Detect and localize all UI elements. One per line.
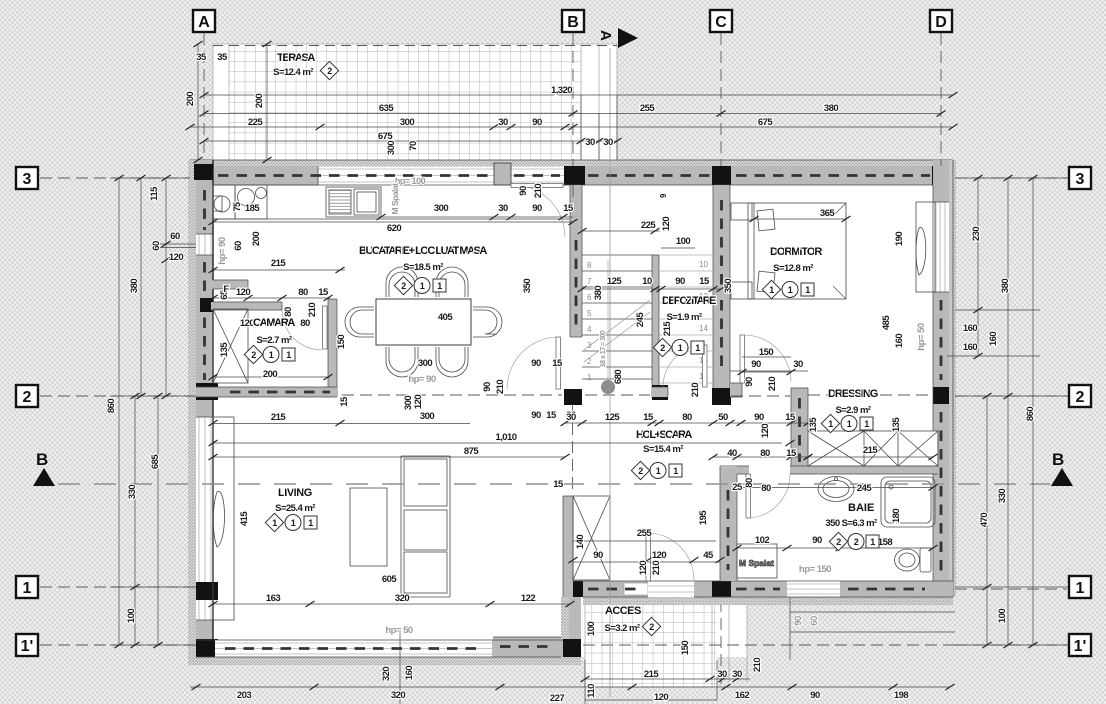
svg-text:30: 30 [498, 203, 508, 214]
svg-text:S=1.9 m²: S=1.9 m² [667, 312, 702, 323]
svg-text:210: 210 [495, 380, 506, 394]
svg-text:110: 110 [586, 684, 597, 698]
svg-text:90: 90 [532, 203, 542, 214]
svg-text:860: 860 [106, 399, 117, 413]
section marker B left [33, 450, 55, 486]
svg-text:300: 300 [420, 411, 434, 422]
svg-text:380: 380 [129, 279, 140, 293]
depozitare door arc [652, 345, 707, 397]
svg-text:245: 245 [857, 483, 872, 494]
svg-text:102: 102 [755, 535, 769, 546]
svg-text:1: 1 [587, 373, 592, 382]
svg-text:100: 100 [586, 622, 597, 636]
svg-text:2: 2 [638, 466, 643, 476]
dorm rows [742, 219, 846, 372]
svg-text:160: 160 [963, 342, 977, 353]
living bottom wall y640 [196, 640, 563, 657]
bottom dim row main [190, 686, 950, 688]
svg-text:635: 635 [379, 103, 394, 114]
kitchen symbols [394, 276, 446, 294]
svg-text:120: 120 [638, 561, 649, 575]
dressing wardrobe X [808, 431, 938, 466]
svg-text:1: 1 [870, 537, 875, 547]
svg-text:35: 35 [196, 52, 207, 63]
living tv unit [401, 456, 450, 597]
svg-text:90: 90 [744, 377, 755, 387]
camara closet X [213, 309, 248, 383]
svg-text:S=18.5 m²: S=18.5 m² [403, 262, 443, 273]
svg-text:200: 200 [254, 94, 265, 108]
grid A vertical [203, 33, 205, 160]
kitchen stove [326, 187, 381, 217]
column bottom C [712, 581, 731, 597]
svg-text:160: 160 [988, 332, 999, 346]
svg-text:380: 380 [824, 103, 838, 114]
pier living bottom [493, 637, 561, 656]
section marker B right [1051, 450, 1073, 486]
svg-text:227: 227 [550, 693, 564, 704]
svg-text:2: 2 [854, 537, 859, 547]
svg-text:B: B [36, 450, 48, 469]
column bottom step [569, 581, 583, 597]
right lower area [790, 597, 955, 660]
top dim row 1320 [204, 94, 953, 96]
svg-text:1: 1 [23, 580, 32, 597]
svg-text:150: 150 [759, 347, 773, 358]
svg-text:1: 1 [805, 285, 810, 295]
svg-text:30: 30 [566, 412, 576, 423]
svg-text:hp= 50: hp= 50 [916, 323, 927, 351]
svg-text:30: 30 [603, 137, 613, 148]
svg-text:120: 120 [654, 692, 668, 703]
camara right wall [328, 299, 337, 397]
svg-text:1: 1 [286, 350, 291, 360]
svg-text:120: 120 [413, 395, 424, 409]
svg-text:90: 90 [810, 690, 820, 701]
column C grid2 [712, 388, 731, 405]
svg-text:330: 330 [127, 485, 138, 499]
svg-text:150: 150 [336, 335, 347, 349]
terasa symbol diamond2 [320, 61, 338, 79]
svg-text:120: 120 [760, 424, 771, 438]
svg-text:215: 215 [271, 412, 286, 423]
top wall window band kitchen-terasa [318, 167, 495, 186]
marker 2 left [16, 385, 38, 407]
svg-text:S=12.4 m²: S=12.4 m² [273, 67, 313, 78]
camara 200 row [213, 376, 330, 378]
svg-text:470: 470 [979, 513, 990, 527]
svg-text:90: 90 [532, 117, 542, 128]
living bottom dashes [225, 647, 480, 650]
svg-text:3: 3 [23, 171, 32, 188]
svg-text:A: A [198, 14, 210, 31]
svg-text:25: 25 [732, 482, 743, 493]
camara F wall [211, 280, 248, 289]
marker B top [562, 10, 584, 32]
marker 1 left [16, 576, 38, 598]
svg-text:18 x 17 = 300: 18 x 17 = 300 [600, 330, 607, 367]
svg-text:1: 1 [291, 518, 296, 528]
svg-text:200: 200 [185, 92, 196, 106]
living bottom window band [215, 640, 492, 657]
svg-text:320: 320 [381, 667, 392, 681]
dressing west wall [791, 388, 808, 473]
svg-text:1': 1' [1074, 638, 1087, 655]
top wall insulation strip [190, 160, 953, 167]
svg-text:680: 680 [613, 370, 624, 384]
svg-text:15: 15 [339, 396, 350, 407]
svg-text:S=12.8 m²: S=12.8 m² [773, 263, 813, 274]
svg-text:200: 200 [251, 232, 262, 246]
right wall dorm window gap [933, 202, 949, 292]
svg-text:15: 15 [643, 412, 654, 423]
svg-text:860: 860 [1025, 407, 1036, 421]
wall hol/living lower + wardrobe support [563, 496, 573, 597]
svg-text:2: 2 [836, 537, 841, 547]
kitchen sink unit [235, 185, 267, 219]
svg-text:160: 160 [404, 666, 415, 680]
marker 1' right [1069, 634, 1091, 656]
marker A [193, 10, 215, 32]
svg-text:875: 875 [464, 446, 479, 457]
svg-text:30: 30 [498, 117, 508, 128]
hol wardrobe X [573, 496, 610, 580]
wall B vertical (kitchen/stairs) [570, 185, 582, 337]
svg-text:1: 1 [269, 350, 274, 360]
stair step numbers [587, 260, 708, 382]
svg-text:1': 1' [21, 638, 34, 655]
left wall kitchen window gap [196, 234, 213, 255]
svg-text:DORMITOR: DORMITOR [770, 246, 822, 258]
svg-text:300: 300 [400, 117, 414, 128]
svg-text:15: 15 [786, 448, 797, 459]
svg-text:100: 100 [676, 236, 690, 247]
svg-text:120: 120 [661, 217, 672, 231]
svg-text:2: 2 [660, 343, 665, 353]
svg-text:215: 215 [271, 258, 286, 269]
column left grid1 [196, 582, 218, 600]
svg-text:1: 1 [437, 281, 442, 291]
bottom wall window baie [787, 581, 840, 597]
svg-text:BUCATARIE+ LOC LUAT MASA: BUCATARIE+ LOC LUAT MASA [359, 245, 487, 257]
svg-text:30: 30 [585, 137, 595, 148]
svg-text:15: 15 [553, 479, 564, 490]
svg-text:675: 675 [378, 131, 393, 142]
svg-text:10: 10 [642, 276, 652, 287]
svg-text:2: 2 [1076, 389, 1085, 406]
column D top [932, 166, 953, 185]
right wall face lines [933, 160, 953, 597]
svg-text:162: 162 [735, 690, 749, 701]
svg-text:80: 80 [682, 412, 692, 423]
svg-text:135: 135 [219, 342, 230, 357]
svg-text:LIVING: LIVING [278, 487, 312, 499]
living coffee table [350, 488, 387, 566]
dining table [376, 299, 471, 345]
column left grid2 [196, 383, 218, 400]
svg-text:210: 210 [651, 561, 662, 575]
svg-text:90: 90 [593, 550, 603, 561]
svg-text:1: 1 [1076, 580, 1085, 597]
svg-text:380: 380 [593, 286, 604, 300]
svg-text:60: 60 [809, 616, 820, 626]
svg-text:5: 5 [587, 309, 592, 318]
top wall gray body [190, 167, 953, 186]
baie washing machine [737, 544, 777, 578]
svg-text:90: 90 [531, 358, 541, 369]
terasa depth verticals [198, 44, 267, 160]
left wall living window gap [196, 417, 213, 620]
svg-text:50: 50 [718, 412, 728, 423]
svg-text:415: 415 [239, 511, 250, 526]
svg-text:M Spalat: M Spalat [390, 183, 400, 215]
svg-text:DRESSING: DRESSING [828, 388, 878, 400]
dining chairs bottom [386, 347, 468, 377]
svg-text:2: 2 [401, 281, 406, 291]
svg-text:1: 1 [864, 419, 869, 429]
top wall dashes [218, 174, 560, 177]
top dim row 225/300/30/90/675 [190, 126, 953, 128]
svg-text:B: B [1052, 450, 1064, 469]
left dim verticals [119, 178, 166, 645]
svg-text:75: 75 [232, 202, 242, 211]
living window sash [213, 417, 234, 620]
svg-text:163: 163 [266, 593, 280, 604]
terasa tiles [229, 44, 581, 162]
svg-text:2: 2 [587, 357, 592, 366]
svg-text:CAMARA: CAMARA [253, 317, 295, 329]
svg-text:B: B [567, 14, 579, 31]
svg-text:60: 60 [170, 231, 180, 242]
svg-text:80: 80 [300, 318, 310, 329]
svg-text:203: 203 [237, 690, 251, 701]
svg-text:125: 125 [607, 276, 622, 287]
hol entry door opening [648, 581, 694, 597]
column left grid3 [194, 164, 213, 180]
svg-text:120: 120 [169, 252, 183, 263]
svg-text:15: 15 [699, 276, 710, 287]
svg-text:15: 15 [785, 412, 796, 423]
svg-text:3: 3 [1076, 171, 1085, 188]
section B-B line [58, 483, 1050, 485]
column stair bottom [652, 385, 668, 400]
terasa white slab [213, 44, 617, 162]
svg-text:10: 10 [699, 260, 708, 269]
svg-text:S=3.2 m²: S=3.2 m² [605, 623, 640, 634]
left wall inner edge [212, 160, 214, 657]
svg-text:70: 70 [408, 141, 419, 151]
baie rows [737, 488, 933, 549]
svg-text:115: 115 [149, 186, 160, 201]
grid 1' horizontal [40, 644, 1067, 646]
wall C vertical [713, 185, 730, 388]
svg-text:80: 80 [761, 483, 771, 494]
svg-text:122: 122 [521, 593, 535, 604]
bottom wall dashes [588, 588, 640, 591]
svg-text:300: 300 [386, 141, 397, 155]
left wall insulation [188, 160, 196, 657]
svg-text:DEPOZITARE: DEPOZITARE [662, 295, 716, 307]
right wall insulation [949, 160, 956, 597]
dimension ticks [115, 41, 1038, 690]
column left camara [200, 298, 213, 312]
svg-text:210: 210 [767, 377, 778, 391]
svg-text:210: 210 [307, 303, 318, 317]
top dim row 675 left [204, 140, 617, 142]
svg-text:215: 215 [644, 669, 659, 680]
svg-text:90: 90 [518, 186, 529, 196]
column B grid2 [564, 389, 582, 405]
svg-text:1: 1 [420, 281, 425, 291]
svg-text:7: 7 [587, 277, 592, 286]
svg-text:100: 100 [997, 609, 1008, 623]
insulation under living wall [188, 657, 581, 665]
svg-text:8: 8 [587, 261, 592, 270]
terasa edge lines [213, 44, 617, 162]
svg-text:15: 15 [318, 287, 329, 298]
stair up line + landing dot [601, 380, 615, 394]
svg-text:140: 140 [575, 535, 586, 549]
svg-text:185: 185 [245, 203, 260, 214]
kitchen door arc at B [511, 184, 565, 238]
svg-text:45: 45 [703, 550, 714, 561]
column A top [192, 166, 213, 185]
svg-text:4: 4 [587, 325, 592, 334]
baie shower [881, 477, 935, 527]
top dim row 635/255/380 [204, 113, 941, 115]
dorm window sash [916, 202, 935, 292]
svg-text:hp= 90: hp= 90 [408, 374, 436, 385]
svg-text:1: 1 [678, 343, 683, 353]
svg-text:1,320: 1,320 [551, 85, 572, 96]
svg-text:C: C [715, 14, 727, 31]
svg-text:1: 1 [673, 466, 678, 476]
svg-text:30: 30 [732, 669, 742, 680]
baie sink [818, 477, 854, 502]
right dim verticals [978, 178, 1033, 645]
svg-text:80: 80 [744, 478, 755, 488]
svg-text:350: 350 [522, 279, 533, 293]
stair middle wall [652, 255, 659, 397]
svg-text:30: 30 [717, 669, 727, 680]
bottom acces rows [585, 660, 750, 704]
svg-text:405: 405 [438, 312, 453, 323]
svg-text:hp= 90: hp= 90 [217, 237, 228, 265]
dining chairs top [386, 267, 468, 297]
grid 3 horizontal [40, 177, 1067, 179]
svg-text:1: 1 [847, 419, 852, 429]
kitchen 215 row [213, 270, 345, 298]
svg-text:675: 675 [758, 117, 773, 128]
kitchen counter line [213, 185, 570, 219]
door B wall lower (hol-living) opening [570, 336, 582, 338]
top wall window band near B [511, 167, 565, 186]
acces porch slab [569, 597, 747, 657]
svg-text:1: 1 [788, 285, 793, 295]
svg-text:90: 90 [754, 412, 764, 423]
svg-text:225: 225 [248, 117, 263, 128]
dorm bed [731, 203, 846, 299]
svg-text:685: 685 [150, 454, 161, 469]
svg-text:90: 90 [751, 359, 761, 370]
dorm south wall stub [730, 383, 742, 397]
baie west wall [720, 466, 737, 581]
section marker A top [597, 28, 638, 48]
svg-text:6: 6 [587, 293, 592, 302]
column right grid1 [932, 581, 953, 597]
column B top [564, 166, 585, 185]
svg-text:3: 3 [587, 341, 592, 350]
svg-text:320: 320 [395, 593, 409, 604]
svg-text:M Spalat: M Spalat [739, 558, 774, 568]
stairs right flight treads [659, 255, 713, 383]
svg-text:80: 80 [298, 287, 308, 298]
svg-text:180: 180 [891, 509, 902, 523]
dining chair right [473, 307, 502, 337]
svg-text:2: 2 [327, 66, 332, 76]
svg-text:195: 195 [698, 510, 709, 525]
svg-text:D: D [935, 14, 947, 31]
marker 3 right [1069, 167, 1091, 189]
marker 3 left [16, 167, 38, 189]
stair break diagonals [584, 300, 650, 362]
column right grid2 [933, 387, 949, 404]
svg-text:230: 230 [971, 227, 982, 241]
kitchen counter left block [213, 185, 235, 219]
svg-text:255: 255 [640, 103, 655, 114]
marker D [930, 10, 952, 32]
baie door leaf+arc [746, 474, 790, 518]
svg-text:1,010: 1,010 [495, 432, 516, 443]
svg-text:300: 300 [418, 358, 432, 369]
grid 1 horizontal [40, 587, 1067, 589]
right wall gray [933, 160, 949, 597]
svg-text:hp= 50: hp= 50 [385, 625, 413, 636]
svg-text:300: 300 [434, 203, 448, 214]
svg-text:330: 330 [997, 489, 1008, 503]
grid B line through hol [572, 405, 574, 494]
grid D vertical [940, 33, 942, 166]
column C top [712, 166, 731, 185]
svg-text:90: 90 [482, 382, 493, 392]
svg-text:40: 40 [727, 448, 737, 459]
svg-text:135: 135 [891, 417, 902, 432]
svg-text:15: 15 [552, 358, 563, 369]
grid 2 horizontal [40, 395, 1067, 396]
svg-text:158: 158 [878, 537, 892, 548]
dressing row [808, 456, 933, 458]
svg-text:1: 1 [828, 419, 833, 429]
svg-text:2: 2 [251, 350, 256, 360]
svg-text:hp= 150: hp= 150 [799, 564, 831, 575]
left wall dashes [203, 190, 206, 230]
living rows [213, 424, 782, 704]
svg-text:200: 200 [263, 369, 277, 380]
step corner wall [569, 597, 581, 648]
column step bottom [563, 639, 581, 657]
bottom wall baie/hol y581 [569, 581, 953, 597]
svg-text:30: 30 [793, 359, 803, 370]
svg-text:80: 80 [283, 307, 294, 317]
baie toilet [895, 548, 932, 572]
svg-text:BAIE: BAIE [848, 502, 874, 514]
entry threshold step [624, 583, 648, 595]
pier on top wall [494, 163, 511, 185]
svg-text:15: 15 [546, 410, 557, 421]
svg-text:198: 198 [894, 690, 908, 701]
section A-A line [609, 48, 611, 697]
insulation under baie wall [583, 597, 826, 605]
